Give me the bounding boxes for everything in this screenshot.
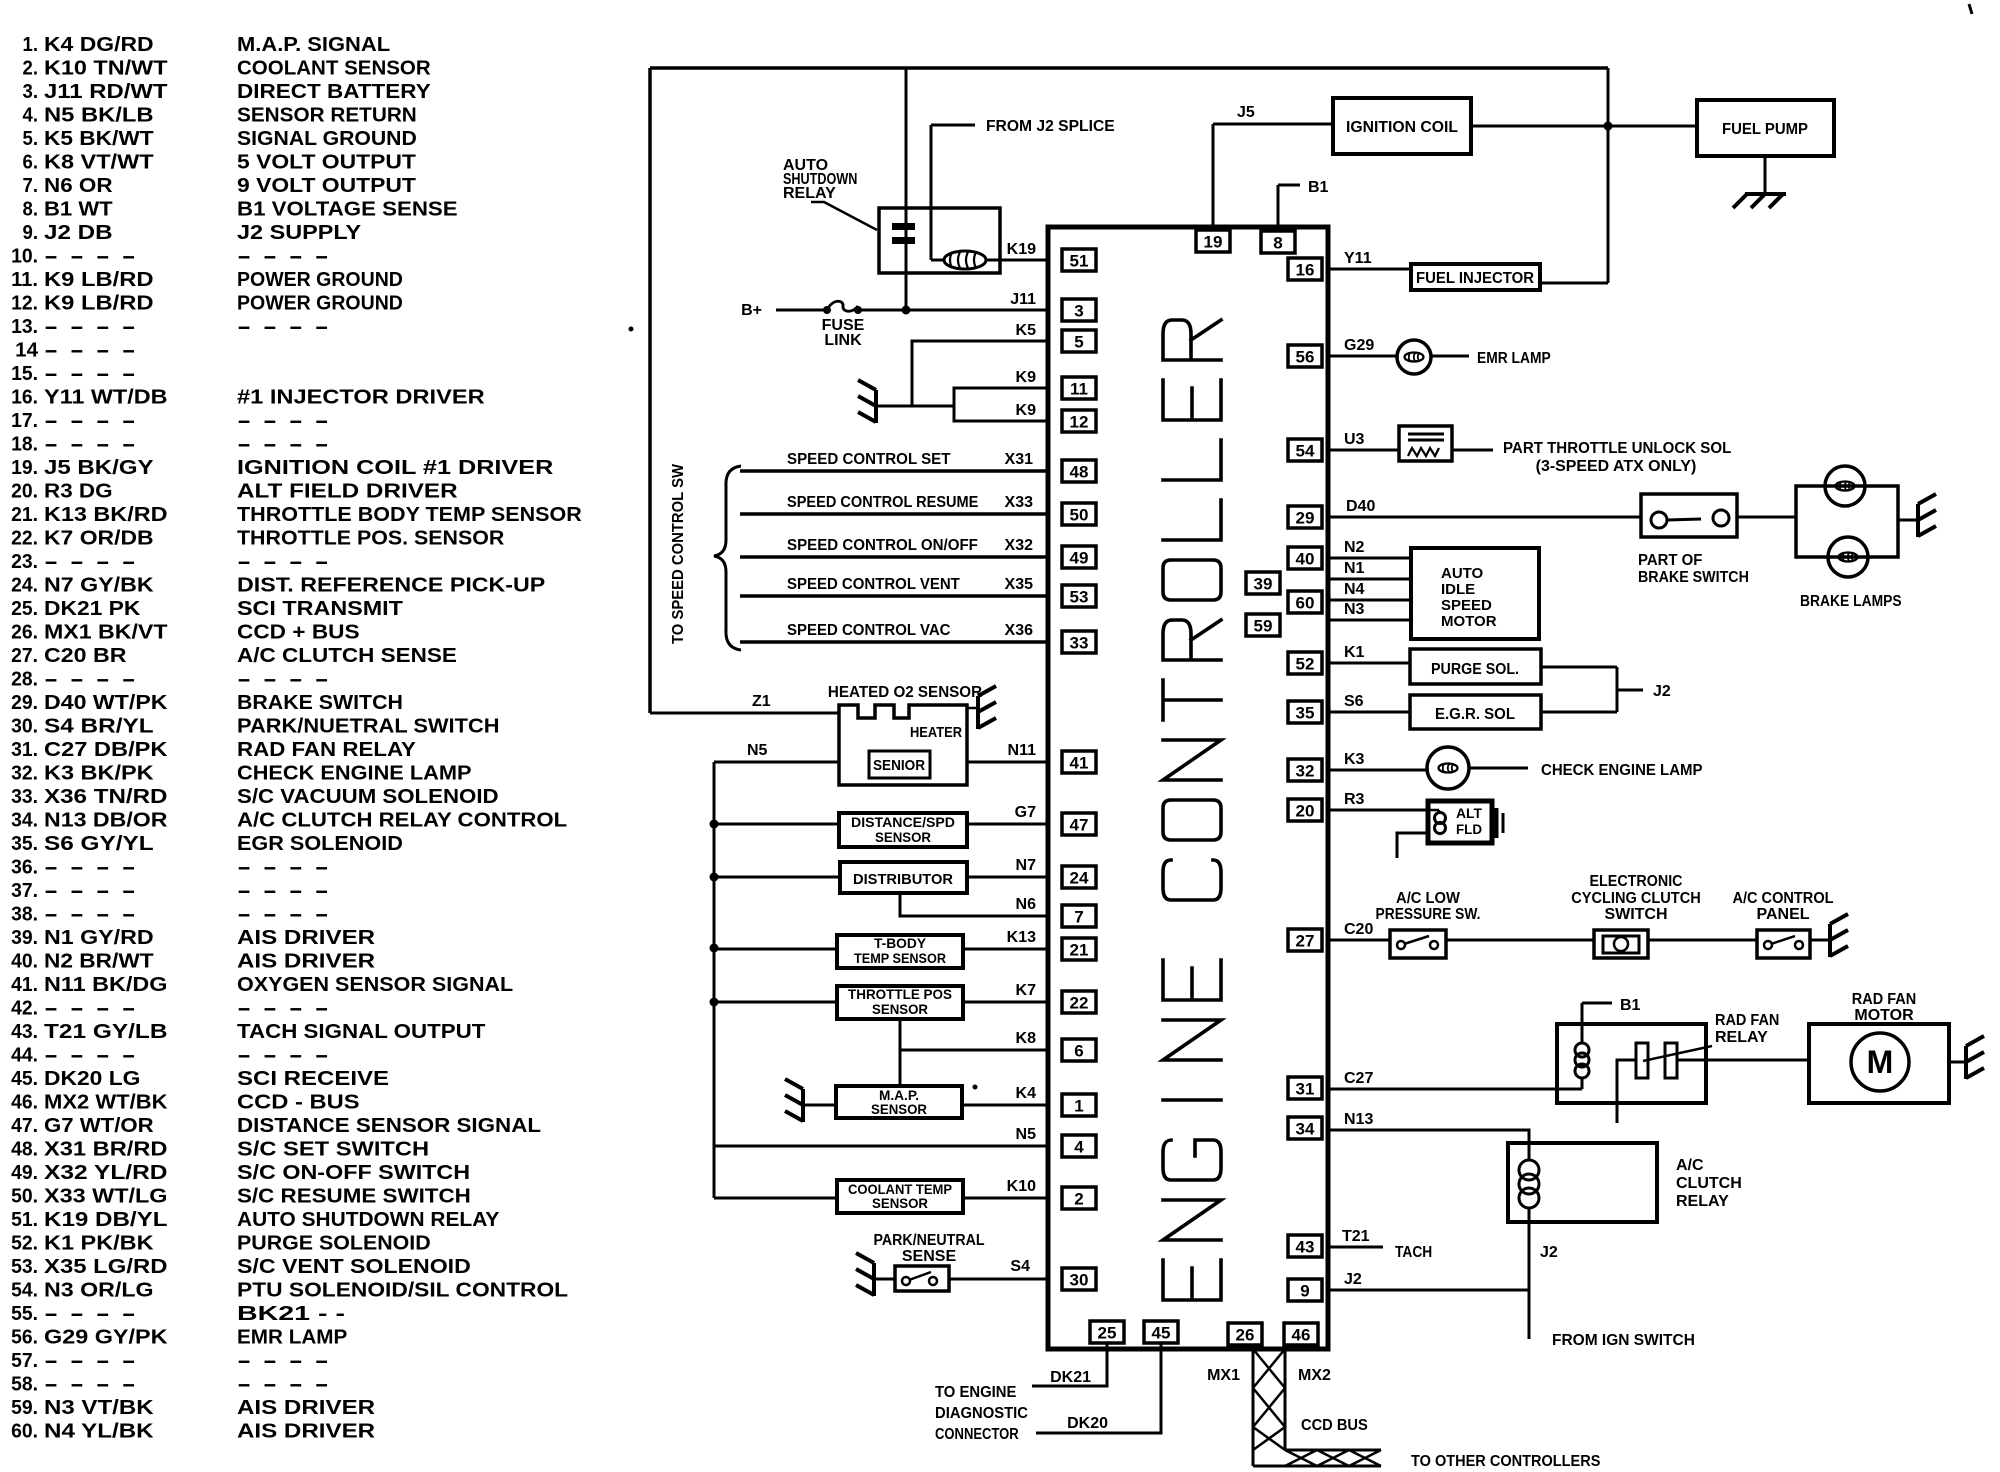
- svg-text:- - - -: - - - -: [237, 246, 329, 268]
- wire K3 check engine lamp: [1328, 769, 1427, 772]
- svg-text:26.: 26.: [11, 622, 38, 644]
- wire G29 EMR lamp: [1328, 355, 1397, 358]
- svg-text:MX1: MX1: [1207, 1367, 1240, 1384]
- svg-text:D40 WT/PK: D40 WT/PK: [44, 692, 168, 714]
- svg-text:N7: N7: [1016, 857, 1037, 874]
- svg-text:A/C CONTROL: A/C CONTROL: [1732, 890, 1833, 907]
- svg-text:- - - -: - - - -: [44, 340, 136, 362]
- svg-text:J5: J5: [1237, 104, 1255, 121]
- svg-text:40: 40: [1296, 550, 1315, 569]
- O2 ground: [967, 707, 976, 710]
- svg-text:N1: N1: [1344, 560, 1365, 577]
- svg-text:DIAGNOSTIC: DIAGNOSTIC: [935, 1405, 1028, 1422]
- svg-text:C20: C20: [1344, 921, 1373, 938]
- A/C low pressure switch: [1328, 939, 1390, 942]
- svg-text:23.: 23.: [11, 551, 38, 573]
- svg-text:- - - -: - - - -: [44, 434, 136, 456]
- svg-text:19: 19: [1204, 233, 1223, 252]
- svg-text:FROM J2 SPLICE: FROM J2 SPLICE: [986, 118, 1115, 135]
- svg-text:28.: 28.: [11, 669, 38, 691]
- svg-text:X36: X36: [1005, 622, 1034, 639]
- wire K5 to pin 5: [912, 341, 1048, 406]
- svg-text:56: 56: [1296, 348, 1315, 367]
- svg-text:MX2: MX2: [1298, 1367, 1331, 1384]
- svg-text:- - - -: - - - -: [44, 1374, 136, 1396]
- svg-text:32: 32: [1296, 762, 1315, 781]
- svg-text:- - - -: - - - -: [44, 1045, 136, 1067]
- svg-text:A/C CLUTCH SENSE: A/C CLUTCH SENSE: [237, 645, 457, 667]
- wire N11 pin 41: [967, 761, 1048, 764]
- svg-text:J11 RD/WT: J11 RD/WT: [44, 81, 168, 103]
- fuse link symbol: [827, 301, 858, 311]
- svg-text:G29 GY/PK: G29 GY/PK: [44, 1327, 168, 1349]
- svg-text:B1 WT: B1 WT: [44, 199, 113, 221]
- svg-text:- - - -: - - - -: [44, 1303, 136, 1325]
- svg-text:34: 34: [1296, 1120, 1315, 1139]
- svg-text:RELAY: RELAY: [1715, 1029, 1768, 1046]
- svg-text:27: 27: [1296, 932, 1315, 951]
- pin 5: [1062, 330, 1096, 352]
- svg-text:X32 YL/RD: X32 YL/RD: [44, 1162, 168, 1184]
- svg-text:14: 14: [15, 340, 39, 362]
- svg-text:16.: 16.: [11, 387, 38, 409]
- relay coil: [944, 251, 986, 269]
- svg-text:PART OF: PART OF: [1638, 552, 1703, 569]
- svg-text:SPEED CONTROL SET: SPEED CONTROL SET: [787, 451, 951, 468]
- svg-text:K5: K5: [1016, 322, 1037, 339]
- wire Y11: [1328, 268, 1411, 271]
- svg-text:- - - -: - - - -: [44, 880, 136, 902]
- svg-text:8.: 8.: [23, 199, 39, 221]
- A/C clutch relay box: [1508, 1143, 1657, 1222]
- svg-text:42.: 42.: [11, 998, 38, 1020]
- pin 41: [1062, 751, 1096, 773]
- svg-text:48.: 48.: [11, 1139, 38, 1161]
- svg-text:T-BODY: T-BODY: [874, 935, 927, 951]
- svg-text:X35 LG/RD: X35 LG/RD: [44, 1256, 168, 1278]
- brace: [714, 466, 741, 650]
- svg-text:PARK/NEUTRAL: PARK/NEUTRAL: [873, 1232, 984, 1249]
- svg-text:1: 1: [1074, 1097, 1083, 1116]
- J2 tie: [1541, 666, 1617, 669]
- svg-text:- - - -: - - - -: [44, 1350, 136, 1372]
- svg-text:J2 SUPPLY: J2 SUPPLY: [237, 222, 362, 244]
- svg-text:DIST. REFERENCE PICK-UP: DIST. REFERENCE PICK-UP: [237, 575, 545, 597]
- svg-text:Y11 WT/DB: Y11 WT/DB: [44, 387, 168, 409]
- svg-text:32.: 32.: [11, 763, 38, 785]
- throttle pos sensor: [837, 986, 963, 1019]
- svg-text:5.: 5.: [23, 128, 39, 150]
- svg-text:4: 4: [1074, 1138, 1084, 1157]
- svg-text:S4: S4: [1010, 1258, 1030, 1275]
- wire N5 to O2: [714, 761, 839, 764]
- svg-text:S/C SET SWITCH: S/C SET SWITCH: [237, 1139, 429, 1161]
- svg-text:7.: 7.: [23, 175, 39, 197]
- svg-text:AIS DRIVER: AIS DRIVER: [237, 927, 376, 949]
- svg-text:CLUTCH: CLUTCH: [1676, 1175, 1742, 1192]
- pin 3: [1062, 299, 1096, 321]
- svg-text:N4: N4: [1344, 581, 1365, 598]
- svg-text:56.: 56.: [11, 1327, 38, 1349]
- fuel injector: [1411, 264, 1540, 290]
- svg-text:K3 BK/PK: K3 BK/PK: [44, 763, 154, 785]
- B1 wire top: [1277, 185, 1280, 232]
- svg-text:35: 35: [1296, 704, 1315, 723]
- svg-text:- - - -: - - - -: [237, 1045, 329, 1067]
- svg-text:COOLANT SENSOR: COOLANT SENSOR: [237, 58, 431, 80]
- svg-text:TO OTHER CONTROLLERS: TO OTHER CONTROLLERS: [1411, 1453, 1601, 1470]
- svg-text:S/C ON-OFF SWITCH: S/C ON-OFF SWITCH: [237, 1162, 470, 1184]
- svg-text:DIRECT BATTERY: DIRECT BATTERY: [237, 81, 431, 103]
- svg-text:SENSOR: SENSOR: [872, 1001, 928, 1017]
- svg-text:53.: 53.: [11, 1256, 38, 1278]
- svg-text:J11: J11: [1010, 291, 1036, 308]
- svg-text:DK21 PK: DK21 PK: [44, 598, 141, 620]
- svg-text:25.: 25.: [11, 598, 38, 620]
- pin 8: [1261, 231, 1295, 253]
- svg-text:POWER GROUND: POWER GROUND: [237, 293, 403, 315]
- wire Z1: [650, 712, 839, 715]
- svg-text:PRESSURE SW.: PRESSURE SW.: [1376, 906, 1481, 923]
- pin 51: [1062, 249, 1096, 271]
- vertical to injector: [1607, 68, 1610, 283]
- svg-text:47: 47: [1070, 816, 1089, 835]
- svg-text:30: 30: [1070, 1271, 1089, 1290]
- svg-text:SCI TRANSMIT: SCI TRANSMIT: [237, 598, 403, 620]
- svg-text:30.: 30.: [11, 716, 38, 738]
- svg-text:THROTTLE POS: THROTTLE POS: [848, 986, 952, 1002]
- MAP sensor: [836, 1086, 962, 1118]
- wire X36 speed control: [740, 640, 1048, 644]
- svg-text:9: 9: [1300, 1282, 1309, 1301]
- svg-text:CCD BUS: CCD BUS: [1301, 1417, 1368, 1434]
- svg-text:44.: 44.: [11, 1045, 38, 1067]
- auto shutdown relay K19: [879, 208, 1000, 273]
- pin 6: [1062, 1039, 1096, 1061]
- svg-text:- - - -: - - - -: [237, 669, 329, 691]
- svg-text:N5: N5: [747, 742, 768, 759]
- svg-text:9.: 9.: [23, 222, 39, 244]
- svg-text:TEMP SENSOR: TEMP SENSOR: [854, 950, 946, 966]
- pin 27: [1288, 929, 1322, 951]
- pin 31: [1288, 1077, 1322, 1099]
- pin 47: [1062, 813, 1096, 835]
- svg-text:57.: 57.: [11, 1350, 38, 1372]
- svg-text:ALT: ALT: [1456, 805, 1482, 821]
- svg-text:X33 WT/LG: X33 WT/LG: [44, 1186, 168, 1208]
- svg-text:R3: R3: [1344, 791, 1365, 808]
- svg-text:Y11: Y11: [1344, 250, 1372, 267]
- svg-text:J2: J2: [1344, 1271, 1362, 1288]
- svg-text:R3 DG: R3 DG: [44, 481, 113, 503]
- svg-text:G7: G7: [1015, 804, 1036, 821]
- wire K8 pin 6: [899, 1019, 902, 1086]
- svg-text:PARK/NUETRAL SWITCH: PARK/NUETRAL SWITCH: [237, 716, 500, 738]
- svg-text:FUEL PUMP: FUEL PUMP: [1722, 121, 1808, 138]
- svg-text:ELECTRONIC: ELECTRONIC: [1590, 873, 1683, 890]
- pin 50: [1062, 503, 1096, 525]
- svg-text:S6: S6: [1344, 693, 1364, 710]
- wire D40 brake switch: [1328, 516, 1641, 519]
- svg-text:K7 OR/DB: K7 OR/DB: [44, 528, 154, 550]
- pin 24: [1062, 866, 1096, 888]
- svg-text:5: 5: [1074, 333, 1083, 352]
- svg-text:- - - -: - - - -: [237, 410, 329, 432]
- svg-text:SWITCH: SWITCH: [1604, 906, 1667, 923]
- svg-text:21.: 21.: [11, 504, 38, 526]
- svg-text:- - - -: - - - -: [44, 363, 136, 385]
- svg-text:24.: 24.: [11, 575, 38, 597]
- fuel pump: [1697, 100, 1834, 156]
- svg-text:SENSOR: SENSOR: [872, 1195, 928, 1211]
- svg-text:POWER GROUND: POWER GROUND: [237, 269, 403, 291]
- svg-text:K8: K8: [1016, 1030, 1037, 1047]
- svg-text:39.: 39.: [11, 927, 38, 949]
- pin 59: [1246, 614, 1280, 636]
- svg-text:EGR SOLENOID: EGR SOLENOID: [237, 833, 403, 855]
- svg-text:22: 22: [1070, 994, 1089, 1013]
- svg-text:AUTO SHUTDOWN RELAY: AUTO SHUTDOWN RELAY: [237, 1209, 500, 1231]
- svg-text:G7 WT/OR: G7 WT/OR: [44, 1115, 154, 1137]
- svg-text:- - - -: - - - -: [237, 880, 329, 902]
- svg-text:26: 26: [1236, 1326, 1255, 1345]
- svg-text:41: 41: [1070, 754, 1089, 773]
- svg-text:CHECK ENGINE LAMP: CHECK ENGINE LAMP: [237, 763, 472, 785]
- svg-text:35.: 35.: [11, 833, 38, 855]
- svg-text:50: 50: [1070, 506, 1089, 525]
- svg-text:PTU SOLENOID/SIL CONTROL: PTU SOLENOID/SIL CONTROL: [237, 1280, 568, 1302]
- leader line: [811, 202, 877, 230]
- svg-text:31.: 31.: [11, 739, 38, 761]
- svg-text:N2: N2: [1344, 539, 1365, 556]
- svg-text:J2 DB: J2 DB: [44, 222, 113, 244]
- pin 7: [1062, 905, 1096, 927]
- svg-text:RAD FAN: RAD FAN: [1715, 1012, 1779, 1029]
- svg-text:X31: X31: [1005, 451, 1034, 468]
- pin 39: [1246, 572, 1280, 594]
- fuel pump ground: [1764, 156, 1767, 192]
- svg-text:DISTANCE/SPD: DISTANCE/SPD: [851, 814, 955, 830]
- wire coil to fuel pump: [1471, 125, 1697, 128]
- svg-text:K9: K9: [1016, 369, 1037, 386]
- svg-text:52: 52: [1296, 655, 1315, 674]
- pin 30: [1062, 1268, 1096, 1290]
- svg-text:1.: 1.: [23, 34, 39, 56]
- svg-text:43: 43: [1296, 1238, 1315, 1257]
- pin 35: [1288, 701, 1322, 723]
- svg-text:N11: N11: [1008, 742, 1037, 759]
- svg-text:X32: X32: [1005, 537, 1034, 554]
- svg-text:TACH: TACH: [1395, 1244, 1432, 1261]
- pin 33: [1062, 631, 1096, 653]
- svg-text:60.: 60.: [11, 1421, 38, 1443]
- svg-text:- - - -: - - - -: [44, 316, 136, 338]
- svg-text:25: 25: [1098, 1324, 1117, 1343]
- svg-text:MX2 WT/BK: MX2 WT/BK: [44, 1092, 168, 1114]
- svg-text:- - - -: - - - -: [237, 857, 329, 879]
- svg-text:A/C: A/C: [1676, 1157, 1704, 1174]
- svg-text:SCI RECEIVE: SCI RECEIVE: [237, 1068, 389, 1090]
- B1 feed: [1581, 1003, 1584, 1043]
- svg-text:34.: 34.: [11, 810, 38, 832]
- wire S6 EGR sol: [1328, 711, 1410, 714]
- svg-text:FROM IGN SWITCH: FROM IGN SWITCH: [1552, 1332, 1695, 1349]
- relay contacts: [1636, 1043, 1648, 1078]
- svg-text:37.: 37.: [11, 880, 38, 902]
- svg-text:58.: 58.: [11, 1374, 38, 1396]
- svg-text:21: 21: [1070, 941, 1089, 960]
- svg-text:E.G.R. SOL: E.G.R. SOL: [1435, 706, 1515, 723]
- svg-text:J2: J2: [1653, 683, 1671, 700]
- pin 49: [1062, 546, 1096, 568]
- svg-text:HEATER: HEATER: [910, 724, 962, 741]
- svg-text:K9: K9: [1016, 402, 1037, 419]
- wire X33 speed control: [740, 512, 1048, 516]
- pin 4: [1062, 1135, 1096, 1157]
- svg-text:CHECK ENGINE LAMP: CHECK ENGINE LAMP: [1541, 762, 1703, 779]
- svg-text:- - - -: - - - -: [44, 551, 136, 573]
- svg-text:#1 INJECTOR DRIVER: #1 INJECTOR DRIVER: [237, 387, 485, 409]
- wire N6 pin 7: [900, 893, 1048, 916]
- pin legend list: [11, 34, 582, 1443]
- svg-text:51: 51: [1070, 252, 1089, 271]
- alt fld lower lead: [1397, 833, 1428, 858]
- svg-text:54.: 54.: [11, 1280, 38, 1302]
- A/C control panel: [1757, 930, 1810, 958]
- svg-text:J5 BK/GY: J5 BK/GY: [44, 457, 154, 479]
- pin 20: [1288, 799, 1322, 821]
- svg-text:- - - -: - - - -: [237, 904, 329, 926]
- svg-text:CONNECTOR: CONNECTOR: [935, 1426, 1019, 1443]
- svg-text:PANEL: PANEL: [1756, 906, 1809, 923]
- svg-text:20.: 20.: [11, 481, 38, 503]
- svg-text:2.: 2.: [23, 58, 39, 80]
- brake lamps: [1796, 486, 1898, 557]
- wire injector to vertical: [1540, 282, 1608, 285]
- pin 19: [1196, 230, 1230, 252]
- svg-text:- - - -: - - - -: [44, 857, 136, 879]
- svg-text:- - - -: - - - -: [237, 998, 329, 1020]
- svg-text:DK20 LG: DK20 LG: [44, 1068, 140, 1090]
- svg-text:IGNITION COIL #1 DRIVER: IGNITION COIL #1 DRIVER: [237, 457, 554, 479]
- svg-text:FUEL INJECTOR: FUEL INJECTOR: [1416, 270, 1534, 287]
- svg-text:DK21: DK21: [1050, 1369, 1091, 1386]
- svg-text:IGNITION COIL: IGNITION COIL: [1346, 119, 1458, 136]
- pin 1: [1062, 1094, 1096, 1116]
- svg-text:S4 BR/YL: S4 BR/YL: [44, 716, 154, 738]
- pin 46: [1284, 1323, 1318, 1345]
- DK21 lead: [1032, 1343, 1107, 1386]
- svg-text:18.: 18.: [11, 434, 38, 456]
- svg-text:M: M: [1867, 1044, 1894, 1080]
- wire R3 alt field: [1328, 809, 1428, 812]
- svg-text:T21: T21: [1342, 1228, 1370, 1245]
- svg-text:SENSOR RETURN: SENSOR RETURN: [237, 105, 417, 127]
- svg-text:12.: 12.: [11, 293, 38, 315]
- svg-text:K9 LB/RD: K9 LB/RD: [44, 293, 154, 315]
- svg-text:46.: 46.: [11, 1092, 38, 1114]
- svg-text:6: 6: [1074, 1042, 1083, 1061]
- svg-text:3: 3: [1074, 302, 1083, 321]
- svg-text:(3-SPEED ATX ONLY): (3-SPEED ATX ONLY): [1536, 458, 1697, 475]
- svg-text:13.: 13.: [11, 316, 38, 338]
- svg-text:8: 8: [1273, 234, 1282, 253]
- svg-text:43.: 43.: [11, 1021, 38, 1043]
- svg-text:S/C RESUME SWITCH: S/C RESUME SWITCH: [237, 1186, 471, 1208]
- svg-text:15.: 15.: [11, 363, 38, 385]
- senior box: [869, 751, 930, 778]
- svg-text:49: 49: [1070, 549, 1089, 568]
- svg-text:G29: G29: [1344, 337, 1374, 354]
- svg-text:- - - -: - - - -: [44, 998, 136, 1020]
- auto idle speed motor wires: [1328, 557, 1411, 560]
- svg-text:52.: 52.: [11, 1233, 38, 1255]
- svg-text:K10: K10: [1007, 1178, 1036, 1195]
- svg-text:B+: B+: [741, 302, 762, 319]
- pin 21: [1062, 938, 1096, 960]
- wire X31 speed control: [740, 469, 1048, 473]
- svg-text:K1 PK/BK: K1 PK/BK: [44, 1233, 154, 1255]
- wire K1 purge sol: [1328, 662, 1410, 665]
- svg-text:50.: 50.: [11, 1186, 38, 1208]
- corner tick: [1969, 4, 1972, 14]
- svg-text:CYCLING CLUTCH: CYCLING CLUTCH: [1571, 890, 1701, 907]
- svg-text:N13: N13: [1344, 1111, 1373, 1128]
- svg-text:59.: 59.: [11, 1397, 38, 1419]
- svg-text:T21 GY/LB: T21 GY/LB: [44, 1021, 168, 1043]
- svg-text:29: 29: [1296, 509, 1315, 528]
- svg-text:K9 LB/RD: K9 LB/RD: [44, 269, 154, 291]
- svg-text:THROTTLE POS. SENSOR: THROTTLE POS. SENSOR: [237, 528, 505, 550]
- pin 11: [1062, 377, 1096, 399]
- svg-text:N6: N6: [1016, 896, 1037, 913]
- svg-text:60: 60: [1296, 594, 1315, 613]
- wire X35 speed control: [740, 594, 1048, 598]
- svg-text:SIGNAL GROUND: SIGNAL GROUND: [237, 128, 417, 150]
- svg-text:B1: B1: [1620, 997, 1641, 1014]
- MAP ground: [803, 1104, 836, 1107]
- svg-text:9 VOLT OUTPUT: 9 VOLT OUTPUT: [237, 175, 416, 197]
- svg-text:SPEED CONTROL VAC: SPEED CONTROL VAC: [787, 622, 951, 639]
- svg-text:51.: 51.: [11, 1209, 38, 1231]
- svg-text:- - - -: - - - -: [237, 316, 329, 338]
- svg-text:TO ENGINE: TO ENGINE: [935, 1384, 1017, 1401]
- svg-text:K3: K3: [1344, 751, 1365, 768]
- wire X32 speed control: [740, 555, 1048, 559]
- svg-text:B1: B1: [1308, 179, 1329, 196]
- rad fan motor: [1809, 1024, 1949, 1103]
- wire S4 pin 30: [949, 1278, 1048, 1281]
- stray mark: [629, 327, 634, 332]
- svg-text:A/C CLUTCH RELAY CONTROL: A/C CLUTCH RELAY CONTROL: [237, 810, 567, 832]
- svg-text:N3: N3: [1344, 601, 1365, 618]
- svg-text:31: 31: [1296, 1080, 1315, 1099]
- svg-text:THROTTLE BODY TEMP SENSOR: THROTTLE BODY TEMP SENSOR: [237, 504, 582, 526]
- pin 40: [1288, 547, 1322, 569]
- svg-text:19.: 19.: [11, 457, 38, 479]
- rad fan relay box: [1557, 1024, 1706, 1103]
- pin 2: [1062, 1187, 1096, 1209]
- auto idle speed motor: [1411, 548, 1539, 639]
- svg-text:12: 12: [1070, 413, 1089, 432]
- svg-text:24: 24: [1070, 869, 1089, 888]
- svg-text:K19: K19: [1007, 241, 1036, 258]
- svg-text:X36 TN/RD: X36 TN/RD: [44, 786, 168, 808]
- svg-text:20: 20: [1296, 802, 1315, 821]
- svg-text:N4 YL/BK: N4 YL/BK: [44, 1421, 154, 1443]
- svg-text:N3 OR/LG: N3 OR/LG: [44, 1280, 154, 1302]
- svg-text:- - - -: - - - -: [44, 669, 136, 691]
